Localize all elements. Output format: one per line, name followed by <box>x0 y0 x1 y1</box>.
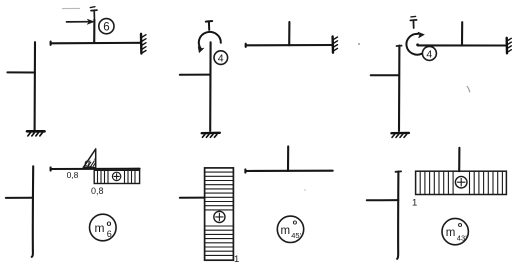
column (diagram 6) <box>397 172 398 259</box>
diagram label m o 45' circled (diagram 5) <box>277 216 303 242</box>
node number 4 in circle (frame 2) <box>214 51 228 65</box>
fixed wall support right (frame 2) <box>333 36 338 52</box>
force arrow pointing right at arm (frame 1) <box>67 19 95 24</box>
column (frame 3) <box>398 46 400 131</box>
wire: left stub (diagram 4) <box>6 197 33 199</box>
wire: beam (diagram 5) <box>245 170 332 172</box>
svg-text:0,8: 0,8 <box>91 186 104 196</box>
wire: left stub (diagram 6) <box>367 199 399 201</box>
svg-text:m: m <box>446 227 456 239</box>
hatched rectangle moment diagram on beam (diagram 6) <box>416 171 507 194</box>
hatched triangle moment diagram (diagram 4) <box>83 149 95 168</box>
node tick at column top (frame 3) <box>397 45 402 47</box>
fixed support base (frame 3) <box>391 133 409 138</box>
diagram label m o 6 circled (diagram 4) <box>90 214 117 241</box>
hatched rectangle moment diagram on beam (diagram 4) <box>94 170 139 183</box>
svg-text:1: 1 <box>412 198 417 209</box>
svg-text:45’: 45’ <box>291 231 301 240</box>
wire: upward tick on beam (frame 3) <box>461 22 463 45</box>
svg-text:6: 6 <box>107 229 112 239</box>
svg-text:1: 1 <box>234 254 239 265</box>
node number 6 in circle (frame 1) <box>99 19 114 34</box>
wire: beam (frame 2) <box>246 44 333 46</box>
wire: beam (diagram 4) <box>51 168 140 170</box>
svg-text:4: 4 <box>426 49 432 61</box>
circled plus sign inside rectangle (diagram 6) <box>455 176 467 188</box>
label alpha with underline (diagram 4) <box>83 157 91 169</box>
wire: upward tick on beam (diagram 5) <box>287 146 289 171</box>
label T with overbar (frame 1) <box>90 7 97 18</box>
node tick at beam left end (diagram 4) <box>50 167 52 170</box>
svg-text:m: m <box>95 221 105 235</box>
node tick at beam left end (diagram 5) <box>244 169 246 172</box>
wire: upward tick on beam (frame 2) <box>288 22 290 45</box>
circled plus sign inside column rectangle (diagram 5) <box>214 211 225 222</box>
wire: left stub (diagram 5) <box>180 197 205 199</box>
svg-text:4: 4 <box>218 53 224 65</box>
node tick at beam left end (frame 1) <box>50 42 52 45</box>
node tick at column top (diagram 6) <box>396 170 402 172</box>
svg-text:o: o <box>293 217 298 226</box>
column (frame 2) <box>209 42 212 131</box>
fixed support base (frame 1 column) <box>27 131 45 136</box>
moment arc arrow clockwise (frame 3) <box>406 32 424 55</box>
wire: top beam (frame 1) <box>51 42 141 45</box>
fixed support base (frame 2) <box>202 133 220 138</box>
svg-text:6: 6 <box>103 22 109 34</box>
moment arc arrow counterclockwise (frame 2) <box>198 32 221 53</box>
svg-text:o: o <box>458 220 463 229</box>
diagram label m o 43 circled (diagram 6) <box>442 218 468 244</box>
svg-text:m: m <box>281 225 291 237</box>
hatched column moment diagram rectangle (diagram 5) <box>205 168 234 260</box>
wire: left stub (frame 3) <box>371 74 400 76</box>
column (diagram 4) <box>32 166 33 256</box>
node dot at arc centre (frame 3) <box>416 43 419 46</box>
wire: tick above rectangle (diagram 6) <box>458 148 460 171</box>
wire: left stub of column (frame 1) <box>7 71 35 73</box>
fixed wall support right (frame 3) <box>507 38 512 54</box>
label T with overbar (frame 3) <box>410 16 416 28</box>
svg-text:o: o <box>107 219 112 228</box>
wire: beam (frame 3) <box>418 44 507 46</box>
faint fold line artifact <box>62 7 80 9</box>
node number 4 in circle (frame 3) <box>422 46 436 60</box>
svg-text:43’: 43’ <box>457 234 467 243</box>
circled plus sign inside rectangle (diagram 4) <box>112 172 120 180</box>
faint scan speck artifacts <box>304 43 470 191</box>
column left (frame 1) <box>34 42 37 130</box>
svg-text:0,8: 0,8 <box>67 170 79 180</box>
wire: left stub (frame 2) <box>180 74 211 76</box>
label T (frame 2) <box>206 21 212 30</box>
wire: torque arm stub on beam (frame 1) <box>93 19 95 43</box>
node tick at beam left end (frame 2) <box>245 44 247 47</box>
fixed wall support right (frame 1) <box>141 34 146 54</box>
